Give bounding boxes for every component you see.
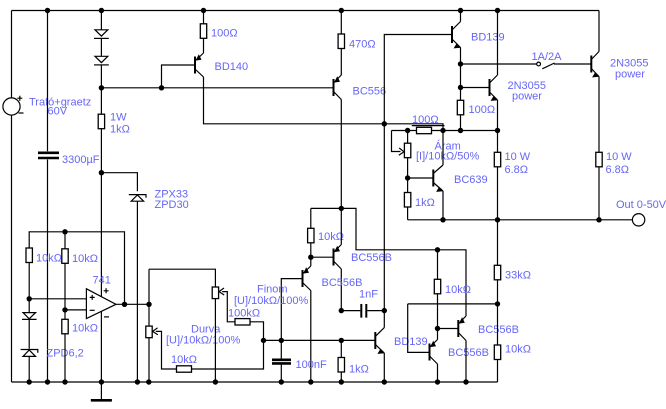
svg-text:10kΩ: 10kΩ [318, 231, 344, 243]
wire plus input y298.8 [29, 298, 86, 300]
resistor R3 1W 1k body [98, 114, 104, 129]
node top rail dots [45, 8, 500, 13]
wire Q1 emitter down and bus A y123.8 [204, 77, 444, 131]
svg-text:Out 0-50V: Out 0-50V [616, 199, 666, 211]
zener ZD1 ZPX33 cathode bar [129, 195, 146, 198]
svg-text:10kΩ: 10kΩ [72, 323, 98, 335]
transistor Q9 emitter diagonal [375, 344, 384, 382]
transistor Q5 arrow NPN [592, 72, 599, 77]
transistor Q4 emitter diagonal [490, 92, 498, 131]
wire base bus y87.8 [101, 87, 333, 89]
svg-text:BD139: BD139 [394, 336, 428, 348]
transistor Q9 BD139 bar [374, 332, 376, 349]
op-amp minus outside [104, 316, 109, 318]
resistor R2 470 body [338, 34, 344, 49]
wire bottom ground rail [12, 381, 498, 383]
transistor Q3 arrow NPN [454, 43, 461, 48]
potentiometer P2 wiper arrow [153, 328, 158, 335]
svg-text:Finom: Finom [257, 284, 288, 296]
wire R15 leads [437, 250, 439, 329]
op-amp minus inside [90, 309, 95, 311]
wire zener branch to x137.4 [101, 173, 137, 382]
transistor Q2 emitter diagonal [334, 75, 342, 83]
wire top +V rail [12, 10, 600, 12]
transistor Q3 collector diagonal [452, 11, 461, 31]
capacitor C2 1nF plates [361, 304, 366, 318]
wire filter-cap column x47.5 [47, 11, 49, 383]
wire base bus y340.4 [264, 339, 376, 341]
node bottom rail dots [27, 379, 469, 384]
resistor R17 10k body lower right [494, 345, 500, 360]
wire current-sense bus y130.5 [392, 130, 498, 132]
svg-text:BD140: BD140 [215, 61, 249, 73]
resistor R11 10W 6.8 left body [494, 152, 500, 167]
wire R2 leads [340, 11, 342, 76]
capacitor C1 3300uF plates [38, 153, 59, 158]
svg-text:1kΩ: 1kΩ [415, 197, 435, 209]
wire Q11 base [438, 328, 459, 330]
wire Q4 base [461, 87, 490, 89]
potentiometer P1 body [404, 143, 410, 158]
transistor Q5 collector diagonal [591, 11, 599, 60]
diode D3 [28, 299, 30, 313]
potentiometer P2 Durva body [146, 326, 152, 338]
node sense bus dots [405, 128, 500, 181]
svg-text:[U]/10kΩ/100%: [U]/10kΩ/100% [234, 295, 308, 307]
wire switch to Q5 base [554, 63, 591, 65]
wire R4 bottom lead [28, 263, 30, 299]
svg-text:1kΩ: 1kΩ [110, 124, 130, 136]
transistor Q6 arrow NPN [436, 187, 443, 192]
transistor Q9 collector diagonal [375, 311, 384, 337]
svg-text:[U]/10kΩ/100%: [U]/10kΩ/100% [166, 335, 240, 347]
svg-text:1kΩ: 1kΩ [349, 364, 369, 376]
transistor Q3 emitter diagonal [452, 39, 461, 64]
svg-text:10kΩ: 10kΩ [445, 284, 471, 296]
wire P3 bottom lead [214, 299, 216, 382]
op-amp U1 741 triangle [86, 289, 116, 319]
svg-text:BC556B: BC556B [351, 252, 392, 264]
resistor R15 10k body x437.5 [434, 279, 440, 294]
transistor Q3 BD139 bar [451, 26, 453, 43]
transformer source TR1 circle [3, 98, 20, 115]
svg-text:1nF: 1nF [359, 289, 378, 301]
wire R14 leads [340, 340, 342, 382]
transistor Q8 collector diagonal [303, 283, 311, 383]
svg-text:6.8Ω: 6.8Ω [606, 164, 630, 176]
wire left rail vertical [11, 11, 13, 383]
transistor Q11 BC556B bar [457, 320, 459, 337]
svg-text:100Ω: 100Ω [211, 28, 238, 40]
transformer minus mark [19, 112, 24, 114]
label 100 mid underline [412, 125, 445, 127]
svg-text:BC639: BC639 [454, 174, 488, 186]
resistor R14 1k bottom body [338, 358, 344, 373]
wire x460.5 down to 100R [460, 64, 462, 131]
resistor R10 100 body [457, 100, 463, 115]
resistor R1 100 top body [200, 24, 206, 39]
transistor Q2 collector diagonal [334, 92, 342, 100]
wire R18 right lead [250, 322, 264, 341]
transistor Q10 emitter diagonal [430, 329, 438, 348]
svg-text:470Ω: 470Ω [349, 39, 376, 51]
transformer plus mark [17, 96, 22, 101]
wire Q10 base branch [408, 304, 430, 353]
switch SW1 blade [542, 63, 554, 69]
svg-text:100Ω: 100Ω [412, 114, 439, 126]
ground symbol stub [100, 382, 102, 399]
transistor Q8 emitter diagonal [303, 257, 311, 274]
potentiometer P1 wiper arrow [399, 148, 404, 155]
transistor Q10 arrow PNP [430, 341, 436, 347]
wire R1 leads [203, 11, 205, 54]
wire P1 leads [407, 131, 409, 179]
transistor Q7 BC556B bar [333, 249, 335, 266]
node mid dots [261, 206, 500, 343]
transistor Q1 emitter diagonal [195, 69, 204, 77]
svg-text:10kΩ: 10kΩ [171, 354, 197, 366]
zener ZD2 ZPD6.2 cathode bar [21, 350, 38, 353]
transistor Q7 arrow PNP [334, 246, 340, 252]
node base bus dots [99, 61, 463, 175]
ground symbol bar [91, 399, 112, 402]
wire R13 bottom lead [310, 243, 312, 257]
svg-text:ZPD30: ZPD30 [155, 199, 189, 211]
transistor Q1 arrow (PNP into bar) [196, 54, 202, 60]
wire op-amp output y304.3 [116, 303, 149, 305]
svg-text:10 W: 10 W [606, 151, 632, 163]
wire R7 right lead to x263.5 [192, 340, 264, 369]
wire emitter node to switch y64 [461, 63, 537, 65]
svg-text:6.8Ω: 6.8Ω [505, 164, 529, 176]
zener ZD1 triangle [131, 195, 143, 201]
resistor R4 10k body x29.2 [26, 248, 32, 263]
transistor Q9 arrow NPN [377, 349, 384, 354]
wire R11 leads [497, 131, 499, 220]
terminal Out circle [632, 214, 644, 226]
svg-text:[I]/10kΩ/50%: [I]/10kΩ/50% [416, 151, 479, 163]
svg-text:10 W: 10 W [505, 151, 531, 163]
transistor Q4 arrow NPN [491, 96, 498, 101]
transistor Q11 emitter diagonal [458, 316, 466, 324]
svg-text:100kΩ: 100kΩ [228, 308, 260, 320]
svg-text:power: power [615, 69, 645, 81]
op-amp plus inside [90, 295, 95, 300]
wire diode column x101.4 top [100, 11, 102, 383]
diode D2 [95, 56, 108, 62]
wire R16 leads [497, 220, 499, 304]
resistor R18 100k horizontal body [235, 319, 250, 325]
svg-text:BC556B: BC556B [448, 347, 489, 359]
wire Q7 base [311, 256, 334, 258]
svg-text:10kΩ: 10kΩ [72, 253, 98, 265]
transistor Q8 arrow PNP [303, 267, 309, 273]
svg-text:60V: 60V [48, 106, 68, 118]
transistor Q10 BC556B bar [429, 344, 431, 361]
potentiometer P3 Finom body [212, 287, 218, 299]
transistor Q7 collector diagonal [334, 261, 342, 311]
wire U-set box top y269.2 [149, 269, 215, 287]
transistor Q7 emitter diagonal [334, 208, 342, 252]
wire feedback top bus y231.8 [29, 232, 124, 304]
transistor Q6 emitter diagonal [433, 183, 443, 220]
resistor R8 1k mid body [404, 193, 410, 208]
svg-text:10kΩ: 10kΩ [505, 344, 531, 356]
resistor R9 100 horizontal body [417, 127, 432, 133]
svg-text:741: 741 [93, 275, 111, 287]
wire output bus y219.8 [408, 219, 633, 221]
wire C2 leads [341, 310, 384, 312]
wire R12 leads [598, 167, 600, 220]
diode D1 [95, 30, 108, 36]
transistor Q11 arrow PNP [459, 317, 465, 323]
resistor R6 10k body x65 lower [62, 319, 68, 334]
transistor Q2 BC556 bar [333, 79, 335, 96]
transistor Q6 BC639 bar [432, 170, 434, 187]
transistor Q8 BC556B bar [302, 270, 304, 287]
potentiometer P3 wiper arrow [219, 288, 224, 295]
transistor Q4 collector diagonal [490, 11, 498, 84]
resistor R13 10k body [308, 228, 314, 243]
node out bus dots [440, 217, 601, 222]
transistor Q2 arrow [334, 76, 340, 82]
svg-text:10kΩ: 10kΩ [36, 253, 62, 265]
zener ZD2 triangle [23, 350, 36, 356]
transistor Q5 2N3055 right bar [590, 56, 592, 73]
svg-text:BD139: BD139 [471, 32, 505, 44]
node opamp dots [27, 229, 152, 312]
transistor Q11 collector diagonal [458, 333, 466, 383]
potentiometer P3 wiper wire [222, 292, 235, 322]
svg-text:BC556B: BC556B [478, 324, 519, 336]
wire Q6 base [408, 177, 434, 179]
wire R6 leads [64, 310, 66, 382]
wire box left column x149 [148, 269, 150, 382]
svg-text:1A/2A: 1A/2A [532, 51, 563, 63]
wire Q8 base to x281.3 [281, 279, 302, 341]
wire minus input y309.9 [65, 309, 86, 311]
svg-text:power: power [512, 91, 542, 103]
wire R5 leads [64, 232, 66, 310]
potentiometer P1 Aram wiper branch [392, 131, 401, 152]
transistor Q1 BD140 bar [194, 57, 196, 74]
svg-text:1W: 1W [110, 112, 127, 124]
wire R17 leads [497, 304, 499, 382]
wire divider link y208.4 to y249.8 [311, 208, 466, 316]
svg-text:BC556: BC556 [353, 86, 387, 98]
wire 10k top lead x310.5 [310, 208, 312, 228]
resistor R12 10W 6.8 right body [596, 152, 602, 167]
wire Q2 collector down x341.3 [340, 100, 342, 209]
transistor Q5 emitter diagonal [591, 69, 599, 153]
transistor Q4 2N3055 bar [489, 79, 491, 96]
svg-text:BC556B: BC556B [322, 277, 363, 289]
transistor Q6 collector diagonal [433, 131, 443, 174]
svg-text:33kΩ: 33kΩ [505, 270, 531, 282]
op-amp plus outside [104, 288, 109, 293]
potentiometer P2 wiper wire [156, 331, 177, 369]
wire BD139 base column x384.3 [384, 35, 452, 311]
svg-text:3300µF: 3300µF [62, 154, 100, 166]
svg-text:100Ω: 100Ω [469, 104, 496, 116]
resistor R5 10k body x65 [62, 249, 68, 263]
switch SW1 pivot circle [537, 62, 541, 66]
transistor Q1 collector diagonal [195, 53, 204, 61]
wire Q1 base to node [162, 65, 196, 88]
svg-text:100nF: 100nF [296, 359, 327, 371]
resistor R16 33k body [494, 265, 500, 280]
capacitor C3 100nF plates [272, 360, 291, 364]
transistor Q10 collector diagonal [430, 356, 438, 382]
wire ZD2 bottom lead [28, 357, 30, 382]
resistor R7 10k horizontal body [177, 366, 192, 372]
wire C3 leads [280, 340, 282, 382]
wire R8 leads [407, 178, 409, 220]
wire divider mid bus y303.9 [408, 303, 498, 305]
